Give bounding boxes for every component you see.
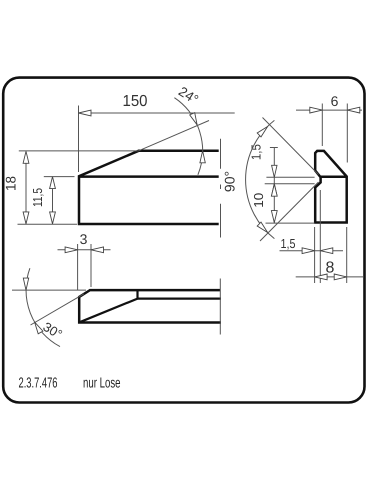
section outline — [315, 151, 347, 223]
main view outline — [79, 151, 219, 224]
dim 11,5 arrows — [50, 177, 56, 189]
dim 8 line — [296, 276, 363, 278]
dim 1,5 top tick — [270, 147, 278, 149]
dim 1,5 arrows — [272, 165, 277, 177]
plan view chamfer diagonal — [79, 290, 137, 322]
section mid edge — [321, 176, 347, 179]
dim 6 line — [296, 109, 362, 111]
svg-text:90°: 90° — [222, 171, 238, 192]
svg-text:2.3.7.476: 2.3.7.476 — [19, 376, 58, 392]
svg-text:18: 18 — [3, 176, 19, 191]
30deg chamfer ext — [31, 294, 85, 325]
30deg arrow at horizontal — [23, 278, 28, 290]
90deg arrow lower — [257, 222, 267, 232]
90deg lower diagonal — [260, 182, 319, 241]
dim 1,5 line — [273, 148, 275, 197]
dim 3 line — [58, 249, 111, 251]
dim 150 ext line — [78, 106, 80, 173]
svg-text:8: 8 — [326, 260, 335, 277]
plan view break line — [219, 279, 221, 335]
dim 18 ext bottom — [18, 223, 78, 225]
30deg arc — [26, 268, 60, 346]
svg-text:1,5: 1,5 — [281, 236, 296, 251]
svg-text:6: 6 — [331, 93, 339, 109]
frame border — [3, 78, 364, 403]
dim 1,5 bottom line — [280, 250, 344, 252]
notch ext lines — [266, 176, 314, 178]
plan view outline — [79, 290, 221, 322]
dim 11,5 line — [52, 177, 54, 224]
24deg arrow upper — [190, 113, 197, 125]
dim 150 arrow — [79, 110, 92, 116]
main view mid edge — [79, 175, 219, 178]
dim 6 arrows — [310, 107, 323, 113]
30deg horizontal ext — [12, 289, 86, 291]
dim 11,5 ext top — [44, 176, 75, 178]
svg-text:11,5: 11,5 — [30, 188, 45, 207]
bottom ext lines — [314, 227, 316, 283]
90deg arrow upper — [257, 127, 267, 137]
90deg upper diagonal — [263, 118, 319, 175]
main view break centerline — [220, 139, 222, 238]
dim 150 line — [79, 112, 235, 114]
30deg arrow at slope — [35, 322, 43, 334]
dim 18 ext top — [19, 150, 139, 152]
24deg arc — [174, 98, 202, 175]
dim 10 ext bottom — [266, 222, 315, 224]
dim 6 ext lines — [321, 104, 323, 147]
dim 3 ext lines — [77, 244, 79, 290]
dim 8 arrows — [315, 274, 328, 280]
dim 1,5 bottom arrows — [302, 248, 315, 254]
svg-text:nur Lose: nur Lose — [83, 376, 121, 392]
dim 18 line — [25, 152, 27, 224]
svg-text:24°: 24° — [176, 84, 201, 108]
24deg arrow lower — [200, 151, 205, 163]
svg-text:30°: 30° — [40, 319, 65, 342]
plan view inner edge — [138, 297, 222, 299]
svg-text:3: 3 — [80, 231, 88, 247]
dim 10 arrows — [271, 184, 277, 196]
24deg slope extension line — [139, 121, 209, 151]
dim 3 arrows — [65, 247, 78, 253]
svg-text:10: 10 — [251, 193, 266, 208]
dim 10 line — [273, 184, 275, 223]
svg-text:150: 150 — [123, 93, 148, 110]
dim 18 arrows — [23, 151, 29, 163]
90deg arc — [246, 120, 275, 238]
